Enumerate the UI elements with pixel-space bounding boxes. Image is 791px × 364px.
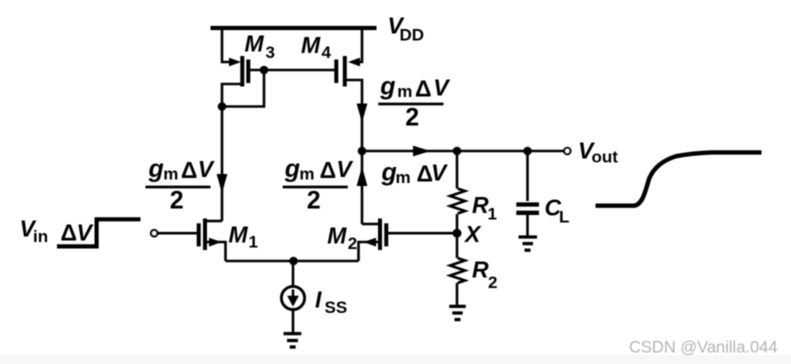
svg-text:V: V <box>77 220 94 246</box>
svg-text:Δ: Δ <box>320 157 337 183</box>
svg-text:2: 2 <box>170 187 184 215</box>
svg-text:2: 2 <box>307 187 321 215</box>
svg-text:M: M <box>301 32 321 58</box>
svg-text:m: m <box>396 168 411 187</box>
svg-text:M: M <box>229 222 249 248</box>
svg-text:Δ: Δ <box>181 157 198 183</box>
svg-text:1: 1 <box>249 233 258 252</box>
svg-text:R: R <box>472 192 489 218</box>
svg-text:2: 2 <box>488 273 497 292</box>
svg-text:V: V <box>198 156 215 182</box>
svg-text:V: V <box>336 156 353 182</box>
svg-text:M: M <box>327 223 347 249</box>
svg-text:M: M <box>245 31 265 57</box>
svg-text:2: 2 <box>405 104 419 132</box>
svg-text:R: R <box>472 256 489 282</box>
svg-text:Δ: Δ <box>415 76 432 102</box>
svg-text:g: g <box>379 73 395 101</box>
svg-text:g: g <box>381 158 397 186</box>
svg-text:m: m <box>397 82 412 101</box>
svg-text:L: L <box>559 207 569 226</box>
svg-text:X: X <box>463 221 482 247</box>
svg-text:m: m <box>299 165 314 184</box>
svg-text:4: 4 <box>322 43 332 62</box>
svg-text:m: m <box>163 165 178 184</box>
svg-text:out: out <box>592 148 619 167</box>
svg-text:1: 1 <box>488 205 497 224</box>
svg-text:2: 2 <box>348 234 357 253</box>
svg-text:g: g <box>284 155 300 183</box>
svg-text:3: 3 <box>266 43 275 62</box>
svg-text:g: g <box>148 155 164 183</box>
svg-text:V: V <box>431 159 448 185</box>
svg-text:in: in <box>33 227 48 246</box>
svg-text:Δ: Δ <box>61 220 78 246</box>
svg-text:I: I <box>315 287 322 313</box>
svg-text:DD: DD <box>400 26 425 45</box>
svg-text:V: V <box>433 75 450 101</box>
svg-text:SS: SS <box>325 298 348 317</box>
svg-text:CSDN @Vanilla.044: CSDN @Vanilla.044 <box>629 339 778 357</box>
